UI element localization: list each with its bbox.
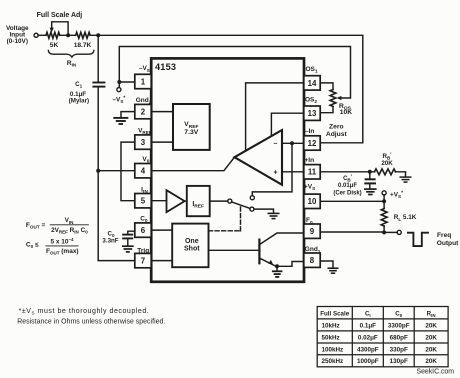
svg-text:20K: 20K [381,160,393,167]
svg-text:–In: –In [305,128,314,135]
svg-text:+In: +In [305,157,315,164]
svg-text:680pF: 680pF [390,335,408,342]
svg-text:3: 3 [141,138,146,147]
svg-text:(0-10V): (0-10V) [7,38,28,45]
svg-text:4300pF: 4300pF [357,346,379,353]
svg-text:4: 4 [141,167,146,176]
svg-text:0.02μF: 0.02μF [358,335,378,342]
svg-text:330pF: 330pF [390,346,408,353]
svg-text:(Mylar): (Mylar) [69,98,89,105]
svg-text:3.3nF: 3.3nF [102,237,118,244]
svg-text:RL 5.1K: RL 5.1K [394,214,417,222]
svg-text:10K: 10K [340,109,352,116]
svg-text:Shot: Shot [184,245,200,252]
svg-text:C0 ≤: C0 ≤ [26,242,41,250]
svg-text:0.01μF: 0.01μF [338,183,357,189]
svg-text:Trig: Trig [137,247,149,254]
svg-text:2VREF RIN C0: 2VREF RIN C0 [51,227,88,235]
svg-text:+: + [273,170,277,177]
svg-text:50kHz: 50kHz [322,335,340,342]
svg-text:(Cer Disk): (Cer Disk) [333,190,361,196]
svg-text:3300pF: 3300pF [388,323,410,330]
svg-text:Full Scale Adj: Full Scale Adj [37,12,83,19]
svg-text:Full Scale: Full Scale [320,310,349,317]
svg-text:8: 8 [310,256,315,265]
svg-text:Zero: Zero [329,123,344,130]
svg-text:130pF: 130pF [390,358,408,365]
svg-text:20K: 20K [425,358,437,365]
svg-text:Adjust: Adjust [326,131,348,138]
svg-text:13: 13 [308,109,317,118]
svg-text:20K: 20K [425,346,437,353]
svg-text:1000pF: 1000pF [357,358,379,365]
svg-text:4153: 4153 [155,62,176,72]
svg-text:–: – [274,140,278,147]
svg-text:7.3V: 7.3V [184,129,198,136]
svg-text:18.7K: 18.7K [74,42,92,49]
svg-text:Freq: Freq [437,232,451,239]
svg-text:1: 1 [141,77,146,86]
svg-text:5K: 5K [50,42,59,49]
svg-text:250kHz: 250kHz [322,358,344,365]
svg-text:6: 6 [141,226,146,235]
svg-text:2: 2 [141,108,146,117]
svg-text:10: 10 [308,197,317,206]
svg-text:0.1μF: 0.1μF [360,323,377,330]
svg-text:One: One [185,238,199,245]
svg-text:5: 5 [141,197,146,206]
svg-text:Resistance in Ohms unless othe: Resistance in Ohms unless otherwise spec… [17,319,165,326]
svg-text:10kHz: 10kHz [322,323,340,330]
svg-text:SeekIC.com: SeekIC.com [416,369,454,376]
svg-text:100kHz: 100kHz [322,346,344,353]
svg-text:Output: Output [437,240,459,247]
svg-text:14: 14 [308,79,317,88]
svg-text:20K: 20K [425,323,437,330]
svg-text:20K: 20K [425,335,437,342]
svg-text:9: 9 [310,227,315,236]
svg-text:11: 11 [308,168,317,177]
svg-text:12: 12 [308,139,317,148]
svg-text:*±VS must be thoroughly decoup: *±VS must be thoroughly decoupled. [19,308,150,315]
svg-text:7: 7 [141,257,146,266]
